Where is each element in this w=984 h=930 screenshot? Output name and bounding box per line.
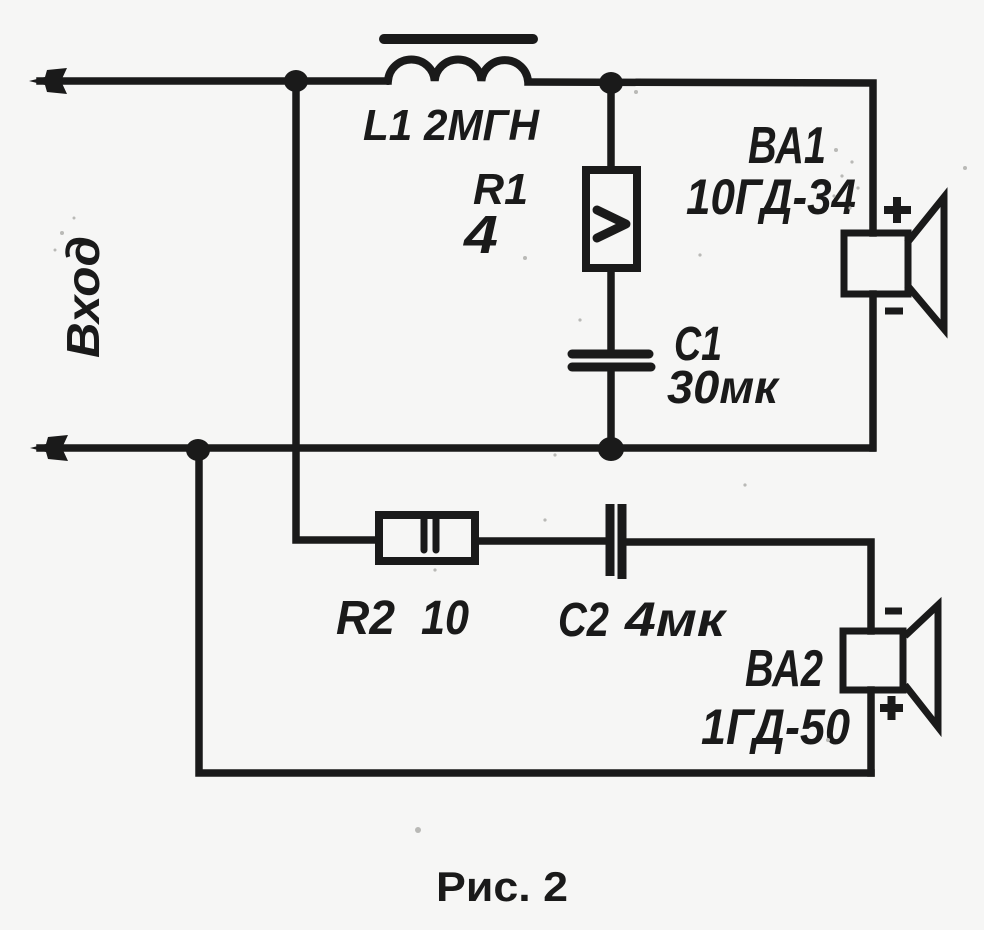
- svg-text:4: 4: [463, 205, 498, 265]
- wire lower return loop: [199, 451, 871, 773]
- svg-text:10: 10: [421, 592, 469, 645]
- speaker BA2 horn: [905, 605, 938, 727]
- speaker BA1 plus: [884, 197, 911, 223]
- speaker BA1 minus: [885, 308, 903, 315]
- inductor L1 core bar: [384, 34, 533, 44]
- wire C1 bottom lead: [607, 370, 615, 446]
- wire top rail right segment: [528, 82, 873, 233]
- capacitor C2 left plate: [606, 504, 615, 576]
- svg-text:30мк: 30мк: [667, 361, 781, 413]
- wire branch vertical from node A to R2: [296, 84, 379, 540]
- arrow input top: [29, 68, 67, 94]
- svg-text:10ГД-34: 10ГД-34: [686, 169, 856, 225]
- wire R1 to C1: [607, 268, 615, 351]
- node B junction dot: [599, 72, 623, 94]
- svg-text:ВА1: ВА1: [748, 117, 826, 175]
- wire R2 to C2: [475, 537, 604, 545]
- speaker BA1 horn: [907, 197, 944, 329]
- wire R1 top lead: [607, 86, 615, 170]
- capacitor C1 top plate: [572, 350, 649, 359]
- speaker BA2 plus: [880, 696, 903, 720]
- wire C2 to BA2: [628, 542, 871, 631]
- speaker BA1 box: [844, 233, 908, 294]
- svg-text:L1 2МГН: L1 2МГН: [363, 101, 540, 150]
- wire BA2 bottom lead: [867, 690, 875, 773]
- resistor R1 body: [586, 170, 637, 268]
- svg-text:1ГД-50: 1ГД-50: [701, 699, 850, 755]
- svg-text:R2: R2: [336, 592, 395, 645]
- wire middle rail: [40, 444, 872, 452]
- node D junction dot: [186, 439, 210, 461]
- capacitor C2 right plate: [618, 504, 627, 579]
- wire BA1 bottom lead: [869, 294, 877, 448]
- node A junction dot: [284, 70, 308, 92]
- inductor L1 winding: [388, 60, 528, 81]
- svg-text:Вход: Вход: [57, 236, 109, 358]
- resistor R2 power marks: [424, 519, 436, 550]
- wire top rail: [40, 77, 388, 85]
- scan speckles: [54, 90, 968, 833]
- speaker BA2 box: [843, 631, 903, 690]
- speaker BA2 minus: [885, 608, 902, 615]
- resistor R2 body: [379, 515, 475, 561]
- svg-text:Рис. 2: Рис. 2: [436, 863, 568, 910]
- resistor R1 chevron mark: [597, 210, 626, 238]
- capacitor C1 bottom plate: [572, 363, 651, 372]
- arrow input bottom: [30, 435, 68, 461]
- node C junction dot: [598, 437, 624, 461]
- svg-text:С2: С2: [558, 594, 609, 647]
- svg-text:4мк: 4мк: [624, 594, 728, 647]
- svg-text:ВА2: ВА2: [745, 640, 823, 698]
